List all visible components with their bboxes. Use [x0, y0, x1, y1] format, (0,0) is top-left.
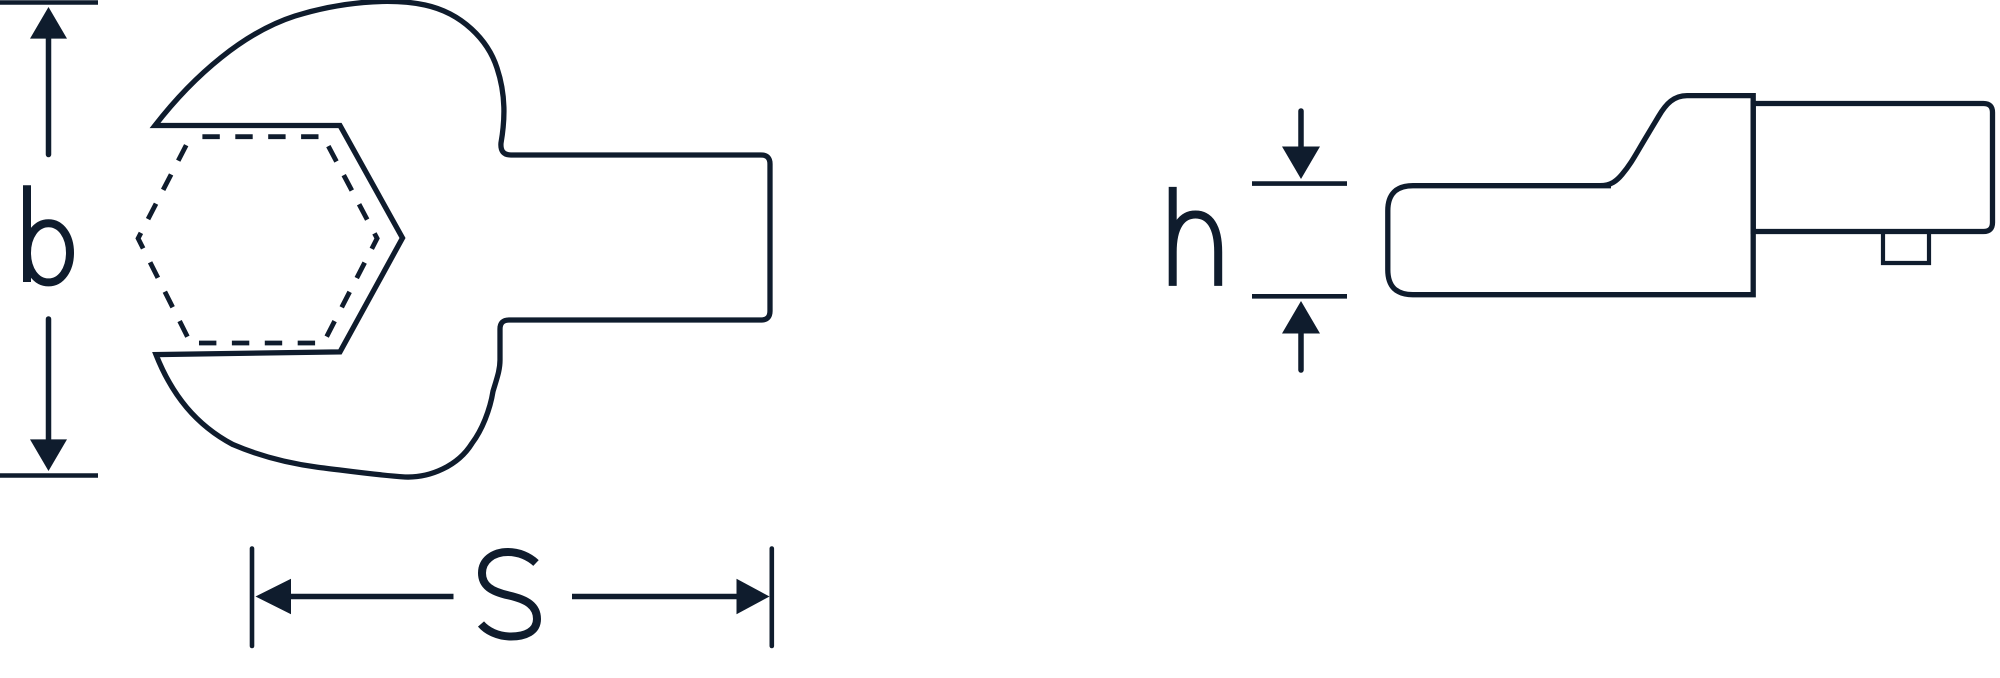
dimension b: lower arrowhead — [30, 439, 67, 471]
dimension S: left extension tick — [250, 549, 255, 647]
dimension b: lower arrow line — [46, 319, 52, 441]
dimension S: right extension tick — [769, 549, 774, 647]
wrench front view outline — [155, 1, 770, 477]
dimension S: left line — [290, 594, 454, 600]
dimension h: lower tick — [1252, 294, 1347, 299]
dimension h: upper arrowhead — [1282, 147, 1320, 180]
dimension S: right line — [572, 594, 738, 600]
dimension h: lower arrowhead — [1282, 301, 1320, 334]
dimension S: left arrowhead — [256, 579, 292, 615]
label h — [1173, 187, 1219, 286]
side view handle block — [1753, 104, 1992, 232]
label S — [481, 552, 537, 637]
dimension h: upper arrow line — [1298, 111, 1304, 147]
wrench side view outline — [1388, 96, 1753, 295]
dimension b: upper arrowhead — [30, 7, 67, 39]
side view square drive peg — [1883, 232, 1929, 264]
dimension h: upper tick — [1252, 181, 1347, 186]
dimension h: lower arrow line — [1298, 333, 1304, 370]
dimension b: top extension tick — [0, 0, 98, 5]
dimension b: bottom extension tick — [0, 473, 98, 478]
dimension S: right arrowhead — [737, 579, 770, 615]
hexagon (dashed, across flats) — [138, 137, 377, 343]
label b — [23, 185, 31, 282]
dimension b: upper arrow line — [46, 37, 52, 155]
